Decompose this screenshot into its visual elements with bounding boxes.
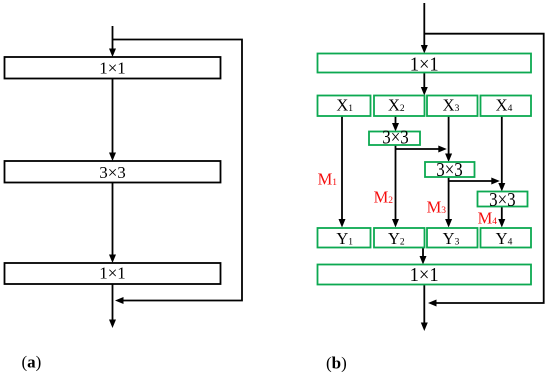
svg-text:(b): (b): [326, 353, 347, 372]
green box 1x1 bottom (b): [318, 265, 532, 285]
wire box2 to box3 (a): [112, 182, 114, 256]
arrowhead into Y1 (b): [339, 219, 346, 228]
arrowhead into conv a (b): [392, 123, 399, 132]
arrowhead output (b): [421, 323, 428, 332]
arrowhead into X row (b): [421, 87, 428, 96]
conv box 3x3 b (b): [425, 162, 475, 177]
box 1x1 bottom (a): [5, 263, 221, 284]
svg-text:M3: M3: [427, 198, 447, 217]
arrowhead output (a): [109, 320, 116, 329]
svg-text:3×3: 3×3: [99, 163, 126, 182]
arrowhead into Y3 (b): [445, 219, 452, 228]
wire input (b): [423, 3, 425, 47]
cell X1 (b): [318, 96, 371, 117]
arrowhead skip return (a): [115, 297, 124, 304]
cell Y4 (b): [481, 228, 532, 248]
svg-text:3×3: 3×3: [436, 159, 463, 181]
wire X4 to conv c (b): [501, 116, 503, 185]
arrowhead branch a right (b): [438, 146, 447, 153]
arrowhead into gbox2 (b): [420, 256, 427, 265]
wire Y row to gbox2 (b): [422, 248, 424, 258]
wire conv a to Y2 (b): [395, 145, 397, 221]
conv box 3x3 a (b): [369, 132, 420, 146]
wire branch b to X4 line (b): [449, 180, 493, 182]
arrowhead into box1 (a): [109, 49, 116, 58]
svg-text:1×1: 1×1: [99, 59, 126, 78]
svg-text:3×3: 3×3: [489, 189, 516, 211]
wire skip out (b): [424, 34, 543, 303]
green box 1x1 top (b): [318, 54, 532, 73]
conv box 3x3 c (b): [478, 192, 528, 207]
cell Y3 (b): [427, 228, 478, 248]
arrowhead into Y2 (b): [392, 219, 399, 228]
svg-text:M1: M1: [318, 169, 338, 188]
cell Y2 (b): [374, 228, 425, 248]
svg-text:1×1: 1×1: [410, 264, 439, 286]
svg-text:M2: M2: [374, 188, 394, 207]
svg-text:3×3: 3×3: [382, 127, 409, 149]
wire skip out (a): [113, 40, 243, 301]
wire output (a): [112, 284, 114, 321]
wire output (b): [423, 285, 425, 325]
wire X2 to conv a (b): [395, 116, 397, 125]
arrowhead skip return (b): [428, 300, 437, 307]
arrowhead into Y4 (b): [498, 219, 505, 228]
arrowhead into box2 (a): [109, 153, 116, 162]
cell X3 (b): [427, 96, 478, 117]
wire gbox1 to X row (b): [423, 73, 425, 89]
wire conv b to Y3 (b): [448, 177, 450, 221]
wire X1 to Y1 (b): [341, 116, 343, 221]
wire X3 to conv b (b): [448, 116, 450, 155]
wire input (a): [112, 26, 114, 50]
cell X2 (b): [374, 96, 425, 117]
svg-text:1×1: 1×1: [99, 264, 126, 283]
cell X4 (b): [481, 96, 532, 117]
arrowhead into conv b (b): [445, 154, 452, 163]
wire conv c to Y4 (b): [501, 207, 503, 221]
svg-text:(a): (a): [22, 353, 42, 372]
wire branch a to X3 line (b): [396, 148, 440, 150]
wire box1 to box2 (a): [112, 78, 114, 154]
svg-text:M4: M4: [478, 209, 498, 228]
box 1x1 top (a): [5, 57, 221, 79]
arrowhead branch b right (b): [491, 178, 500, 185]
arrowhead into gbox1 (b): [421, 45, 428, 54]
arrowhead into box3 (a): [109, 255, 116, 264]
svg-text:1×1: 1×1: [410, 54, 439, 76]
arrowhead into conv c (b): [498, 183, 505, 192]
cell Y1 (b): [318, 228, 371, 248]
box 3x3 (a): [5, 161, 221, 183]
